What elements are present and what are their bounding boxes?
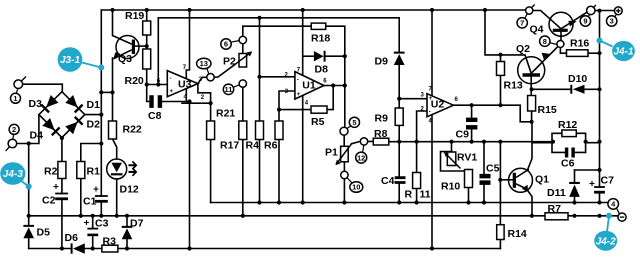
capacitor C9 — [466, 118, 477, 130]
svg-text:U3: U3 — [178, 79, 192, 91]
resistor R16 — [567, 50, 589, 57]
circled label 1 — [11, 93, 21, 103]
wire terminal2 to bridge left — [17, 115, 39, 144]
svg-text:Q2: Q2 — [516, 43, 530, 55]
terminal circle at U3 output node 13 — [207, 74, 214, 81]
svg-text:U2: U2 — [431, 99, 445, 111]
wire R8 line programming net — [389, 141, 553, 143]
svg-text:D8: D8 — [315, 63, 329, 75]
leader line node 10 — [347, 178, 353, 184]
tick on terminal 1 — [22, 77, 27, 82]
leader line node 3 — [615, 14, 617, 17]
svg-text:C8: C8 — [148, 110, 162, 122]
svg-text:J4-2: J4-2 — [596, 236, 616, 247]
wire P2 top terminal to R18 — [243, 26, 311, 53]
terminal circle node 8 Q4 base — [557, 41, 564, 48]
junction dots right side — [470, 51, 602, 182]
svg-text:R20: R20 — [125, 75, 144, 87]
svg-text:R2: R2 — [44, 166, 58, 178]
circled label 12 — [356, 152, 367, 163]
wire U3 pin7 vertical from top rail — [186, 10, 189, 79]
wire Q1 base wire — [500, 179, 513, 181]
capacitor C7 — [594, 186, 605, 188]
svg-text:R3: R3 — [103, 236, 117, 248]
transistor Q1 circle — [509, 168, 533, 192]
circled label 3 — [607, 16, 617, 26]
svg-text:J4-1: J4-1 — [613, 47, 633, 58]
svg-text:R6: R6 — [264, 140, 278, 152]
svg-text:J3-1: J3-1 — [60, 55, 80, 66]
wire main left vertical from top rail to C1 — [100, 10, 102, 196]
wire U3 output to P2 wiper — [198, 65, 235, 84]
terminal circle P1 bottom node 10 — [341, 171, 348, 178]
svg-text:RV1: RV1 — [457, 152, 477, 164]
svg-text:C6: C6 — [561, 158, 575, 170]
callout J4-3 — [0, 162, 32, 189]
leader line node 1 — [16, 89, 18, 94]
wire P1 wiper to R8 — [352, 141, 374, 143]
resistor R7 — [545, 213, 568, 220]
circled label 9 — [580, 16, 590, 26]
trimmer RV1 body — [447, 152, 456, 166]
wire R13 column — [500, 55, 502, 105]
diode D6 — [71, 243, 85, 253]
transistor Q2 circle — [518, 57, 545, 84]
potentiometer P1 body — [341, 146, 349, 162]
svg-text:9: 9 — [583, 17, 587, 26]
leader line node 12 — [363, 145, 364, 153]
op-amp U2 — [427, 94, 453, 117]
wire Q3 emitter column through R22 and D12 — [113, 58, 117, 216]
circled label 8 — [540, 36, 550, 46]
wire R20 node down to C8 left plate — [147, 85, 150, 102]
tick on terminal 9 — [593, 5, 596, 8]
transistor Q4 internals — [553, 29, 568, 32]
svg-text:R18: R18 — [311, 33, 330, 45]
resistor R15 — [528, 96, 536, 112]
terminal circle P2 top node 6 — [239, 36, 246, 43]
bridge diode D4 — [42, 118, 54, 130]
wire U3 pin2 to R21 — [182, 84, 211, 104]
capacitor C1 — [95, 195, 108, 197]
capacitor C2 — [55, 193, 68, 195]
wire rail17 drop to U3 upper input — [157, 18, 159, 85]
resistor R12 — [562, 130, 576, 137]
wire terminal1 to bridge top — [23, 84, 63, 92]
wire U3 pin4 jog to negative column — [185, 89, 187, 102]
wire R1 top link and R1 column — [81, 144, 102, 216]
resistor R11 — [413, 173, 421, 189]
svg-text:D10: D10 — [568, 73, 587, 85]
terminal circle P2 bottom node 11 — [239, 80, 246, 87]
led D12 internals — [111, 161, 137, 177]
diode D11 — [569, 182, 580, 197]
callout J4-1 — [597, 38, 635, 62]
wire U1 pin3 and R6 column — [279, 91, 295, 203]
wire Q2 collector feed — [485, 10, 531, 73]
wire bridge plus output to main vertical — [85, 114, 102, 116]
svg-text:2: 2 — [12, 125, 16, 134]
terminal AC input 1 — [14, 80, 23, 89]
wire D9 node to U2 pin3 — [399, 98, 427, 100]
diode D10 — [570, 85, 584, 94]
svg-text:J4-3: J4-3 — [3, 169, 23, 180]
svg-text:R17: R17 — [220, 140, 239, 152]
circled label 2 — [9, 124, 19, 134]
wire top positive rail — [101, 9, 529, 11]
svg-text:Q3: Q3 — [118, 53, 132, 65]
svg-text:C5: C5 — [486, 163, 500, 175]
resistor R3 — [102, 245, 118, 252]
wire R16 right to output vertical — [588, 52, 600, 54]
resistor R2 — [58, 162, 66, 179]
circled label 13 — [197, 58, 211, 69]
wire U1 pin7 D8 column from top rail — [302, 10, 304, 75]
svg-text:D4: D4 — [30, 130, 44, 142]
wire rail A sense rail — [211, 202, 608, 204]
diode D5 — [23, 225, 34, 238]
junction dots rail17 and left column — [27, 16, 262, 146]
svg-text:R4: R4 — [246, 140, 260, 152]
wire Q3 collector from rail — [112, 10, 114, 36]
leader line node 11 — [233, 85, 239, 88]
svg-text:R22: R22 — [123, 124, 142, 136]
resistor R21 — [207, 121, 215, 140]
svg-text:D6: D6 — [65, 232, 79, 244]
svg-text:D11: D11 — [547, 187, 566, 199]
wire Q4 emitter to terminal 9 — [561, 12, 587, 29]
svg-text:R1: R1 — [87, 166, 101, 178]
circled label 4 — [608, 199, 619, 210]
svg-text:-: - — [297, 78, 299, 84]
leader line node 9 — [589, 14, 591, 17]
svg-text:6: 6 — [224, 40, 228, 49]
diode D8 — [314, 51, 326, 62]
svg-text:1: 1 — [13, 94, 17, 103]
wire Q1 emitter to rail B — [527, 189, 533, 216]
resistor R5 — [311, 106, 327, 113]
wire U1 pin4 down to rail A — [302, 95, 304, 202]
wire D11 column — [574, 170, 576, 203]
plus terminal top right — [614, 7, 622, 15]
wire C8 right plate to pin4 column — [162, 101, 189, 103]
transistor Q2 internals — [523, 73, 541, 76]
wire U1 output to R5 feedback — [324, 86, 345, 110]
transistor Q3 circle — [116, 36, 139, 59]
svg-text:R13: R13 — [504, 80, 523, 92]
svg-text:R5: R5 — [311, 116, 325, 128]
wire rail C negative rail — [29, 248, 501, 250]
bridge diamond outline — [39, 92, 85, 138]
junction dots top rail — [110, 8, 601, 13]
resistor R19 — [143, 21, 151, 35]
wire Q2 base node to D10 — [532, 88, 599, 90]
resistor R9 — [395, 108, 403, 125]
wire C9 column — [471, 105, 473, 142]
svg-text:5: 5 — [352, 118, 356, 127]
trimmer RV1 wiper arrow — [445, 153, 461, 169]
leader line node 7 — [525, 14, 528, 19]
svg-text:-: - — [429, 110, 431, 116]
transistor Q3 internals — [132, 40, 135, 55]
wire P2 bottom terminal down through R17 to rail B — [242, 87, 244, 216]
svg-text:3: 3 — [610, 17, 614, 26]
svg-text:U1: U1 — [302, 79, 316, 91]
potentiometer P2 body — [239, 54, 247, 68]
wire D8 anode lead — [303, 55, 314, 57]
circled label 11 — [223, 84, 233, 94]
svg-text:D9: D9 — [375, 56, 389, 68]
junction dots rail B — [27, 214, 602, 218]
svg-text:11: 11 — [225, 85, 233, 94]
svg-text:R19: R19 — [125, 10, 144, 22]
svg-text:R7: R7 — [548, 203, 562, 215]
potentiometer P1 wiper arrow — [336, 144, 352, 165]
leader line node 2 — [12, 135, 15, 140]
svg-text:11: 11 — [420, 188, 431, 200]
terminal circle node 7 top rail — [526, 7, 533, 14]
wire D9 column from top rail through R9 C4 — [398, 65, 400, 203]
wire U2 pin7 from rail17 — [431, 10, 433, 96]
resistor R13 — [497, 62, 505, 76]
svg-text:P1: P1 — [325, 147, 338, 159]
op-amp U1 — [295, 72, 324, 100]
svg-text:P2: P2 — [223, 56, 236, 68]
wire Q3 base to R19 R20 node — [135, 45, 147, 47]
circled label 6 — [221, 39, 231, 49]
terminal circle P1 wiper node 12 — [360, 138, 367, 145]
transistor Q1 internals — [513, 173, 516, 188]
resistor R18 — [311, 23, 326, 29]
svg-text:C1: C1 — [83, 196, 97, 208]
wire R19 R20 column — [146, 10, 148, 85]
leader line node 8 — [550, 43, 558, 45]
svg-text:Q4: Q4 — [530, 24, 544, 36]
bridge diode D1 — [65, 95, 77, 107]
junction dots U1 region — [257, 54, 347, 112]
wire C5 column from R8 line — [483, 142, 485, 174]
resistor R22 — [109, 121, 117, 139]
wire bridge minus column through R2 C2 to bottom rail — [61, 138, 63, 249]
resistor R6 — [275, 121, 283, 140]
capacitor C8 — [149, 95, 162, 108]
wire R5 left to pin3 node — [279, 109, 311, 111]
svg-text:D12: D12 — [120, 184, 139, 196]
capacitor C6 — [565, 148, 575, 158]
wire RV1 top lead — [451, 142, 453, 152]
wire D11 top link — [575, 169, 600, 171]
svg-text:R14: R14 — [508, 228, 527, 240]
wire C1 bottom stub — [100, 201, 102, 216]
resistor R8 — [373, 138, 389, 145]
led D12 circle — [107, 159, 127, 179]
wire U1 pin2 net vertical with R4 — [259, 18, 261, 203]
wire D8 cathode to U1 output — [326, 56, 345, 85]
wire U1 pin2 horizontal — [260, 76, 295, 78]
svg-text:R9: R9 — [375, 113, 389, 125]
resistor R10 — [465, 170, 473, 188]
svg-text:R: R — [405, 188, 413, 200]
callout J3-1 — [58, 47, 105, 72]
junction dots R8 line — [397, 97, 502, 144]
wire Q1 collector up to R15 node — [527, 122, 532, 170]
svg-text:D1: D1 — [87, 99, 101, 111]
terminal circle U1 output node 5 — [340, 127, 348, 135]
svg-text:C7: C7 — [601, 175, 615, 187]
wire U2 output to R15 bottom node — [453, 105, 531, 122]
capacitor C5 — [480, 174, 491, 185]
wire terminal8 to R16 left — [560, 47, 566, 53]
svg-text:R21: R21 — [216, 108, 235, 120]
resistor R14 — [497, 225, 504, 240]
svg-text:C2: C2 — [42, 195, 56, 207]
svg-text:-: - — [170, 76, 172, 82]
svg-text:D3: D3 — [29, 98, 43, 110]
svg-text:Q1: Q1 — [535, 174, 549, 186]
capacitor C3 — [87, 228, 98, 230]
wire top rail right section to plus terminal — [595, 10, 615, 12]
wire R18 right to U1 output node — [326, 26, 345, 56]
wire R12 C6 parallel box — [532, 133, 599, 152]
wire Q4 base stub — [560, 32, 562, 41]
wire U2 pin4 down to rail C — [431, 115, 433, 249]
wire rail B zero volt rail — [29, 215, 618, 217]
resistor R17 — [239, 121, 247, 140]
circled label 7 — [517, 18, 527, 28]
svg-text:+: + — [429, 96, 433, 102]
diode D7 — [122, 226, 133, 239]
terminal AC input 2 — [8, 139, 17, 148]
wire U1 output down to terminal 5 and P1 — [343, 86, 346, 203]
leader line node 13 — [207, 68, 209, 74]
junction dots rail C — [60, 246, 434, 250]
callout J4-2 — [594, 213, 617, 251]
svg-text:R16: R16 — [570, 38, 589, 50]
leader line node 6 — [231, 41, 240, 43]
svg-text:C3: C3 — [95, 218, 109, 230]
circled label 5 — [349, 117, 359, 127]
wire Q2 base stub and R15 — [530, 77, 532, 122]
svg-text:C4: C4 — [381, 175, 395, 187]
svg-text:D5: D5 — [37, 227, 51, 239]
wire U3 negative column down to bottom rail — [189, 102, 191, 249]
wire R10 bottom to rail A — [468, 188, 470, 203]
tick on terminal 7 — [532, 5, 535, 8]
svg-text:+: + — [297, 92, 301, 98]
svg-text:R10: R10 — [441, 181, 460, 193]
leader line node 4 — [617, 208, 620, 214]
leader line node 5 — [347, 126, 351, 129]
resistor R1 — [77, 162, 85, 179]
wire RV1 bottom bracket to R10 — [441, 152, 469, 171]
svg-text:R15: R15 — [538, 104, 557, 116]
svg-text:7: 7 — [520, 19, 524, 28]
wire Q4 collector from terminal 7 — [533, 11, 561, 29]
wire output sense vertical x599 — [599, 11, 601, 203]
svg-text:13: 13 — [200, 59, 208, 68]
op-amp U3 — [167, 71, 198, 97]
wire R20 node to U3 input — [147, 84, 168, 86]
diode D9 — [394, 52, 405, 65]
svg-text:+: + — [170, 89, 174, 95]
wire R21 column to rail A — [210, 103, 212, 202]
tick on terminal 2 — [6, 147, 10, 151]
svg-text:R8: R8 — [374, 128, 388, 140]
resistor R20 — [143, 49, 151, 69]
wire C5 bottom to rail A — [483, 185, 485, 203]
wire second rail y17 — [158, 18, 399, 52]
circled label 10 — [350, 182, 363, 193]
svg-text:D2: D2 — [87, 119, 101, 131]
potentiometer P2 wiper arrow — [235, 52, 252, 65]
resistor R4 — [256, 121, 264, 140]
bridge diode D3 — [46, 95, 58, 107]
svg-text:C9: C9 — [456, 129, 470, 141]
transistor Q4 circle — [549, 12, 573, 36]
wire current limit column from R8 line to Q1 base and R14 — [499, 142, 501, 249]
terminal circle node 9 — [587, 6, 595, 14]
wire J4-3 column with D5 — [28, 144, 30, 249]
svg-text:10: 10 — [352, 183, 360, 192]
svg-text:D7: D7 — [130, 218, 144, 230]
minus terminal bottom right — [618, 213, 626, 221]
bridge diode D2 — [65, 122, 77, 134]
junction dots rail A — [257, 200, 601, 204]
svg-text:12: 12 — [357, 153, 365, 162]
wire D7 column — [126, 216, 128, 249]
capacitor C4 — [395, 176, 406, 184]
svg-text:8: 8 — [543, 37, 547, 46]
svg-text:R12: R12 — [558, 119, 577, 131]
wire R22 tap to main vertical — [101, 91, 112, 93]
wire R11 column and U2 pin2 link — [417, 111, 427, 203]
